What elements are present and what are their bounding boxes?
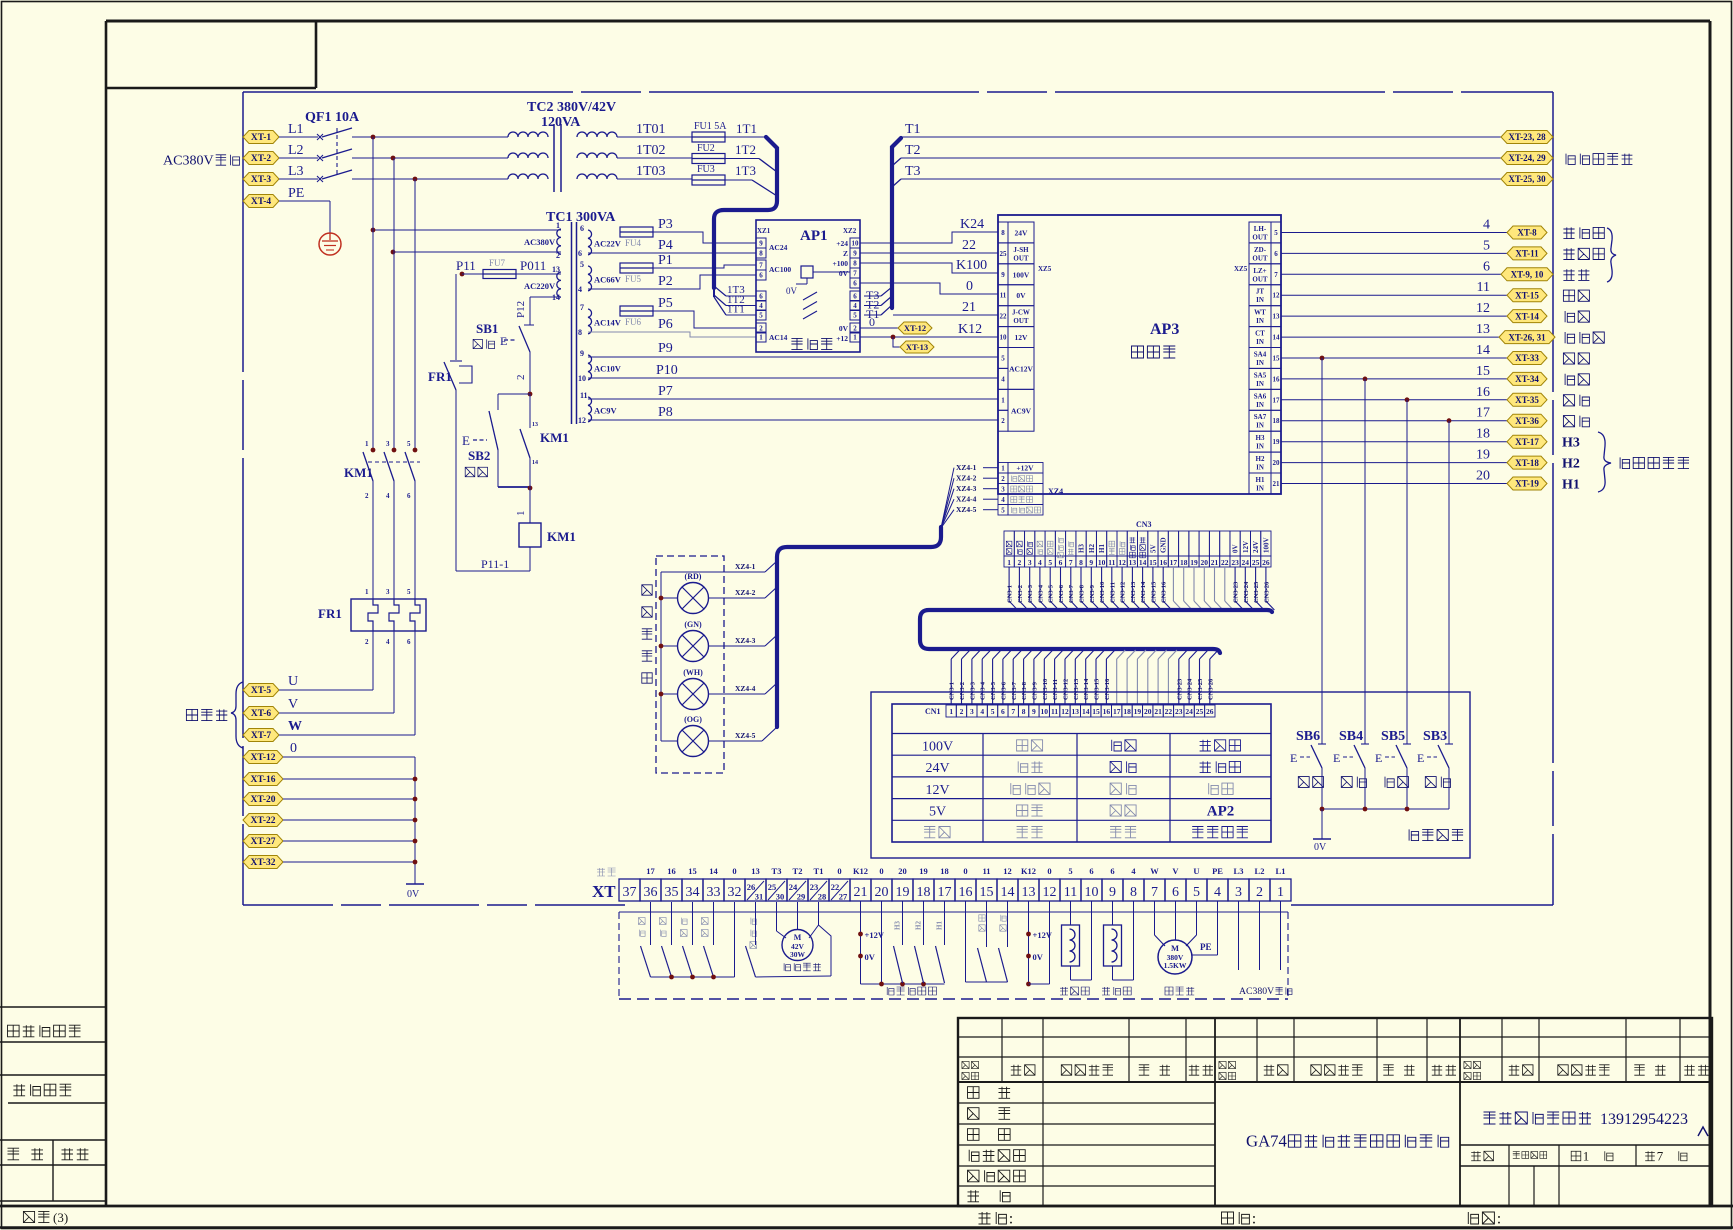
svg-text:13: 13	[1273, 313, 1281, 321]
svg-text:1T1: 1T1	[727, 304, 745, 316]
svg-text:H2: H2	[915, 921, 923, 930]
svg-text:7: 7	[1657, 1148, 1664, 1163]
svg-text:XZ4-2: XZ4-2	[956, 474, 977, 483]
svg-text:L1: L1	[288, 122, 304, 137]
svg-text:19: 19	[919, 866, 928, 876]
svg-text:XZ4-1: XZ4-1	[735, 562, 756, 571]
svg-text:P011: P011	[520, 258, 546, 273]
svg-text:5: 5	[580, 260, 584, 269]
svg-text:P11-1: P11-1	[481, 557, 509, 571]
svg-text:100V: 100V	[1262, 537, 1270, 553]
svg-text:P11: P11	[456, 258, 476, 273]
svg-text:T3: T3	[905, 164, 921, 179]
svg-text:5: 5	[407, 588, 411, 596]
svg-text:FU3: FU3	[697, 164, 715, 175]
svg-text:29: 29	[797, 892, 806, 902]
svg-text:XZ2: XZ2	[843, 227, 857, 235]
svg-text:6: 6	[1059, 558, 1063, 567]
svg-text:XT-1: XT-1	[251, 133, 271, 143]
svg-text:25: 25	[1000, 250, 1008, 258]
svg-text:24: 24	[789, 882, 798, 892]
svg-text:T1: T1	[905, 122, 921, 137]
svg-text:6: 6	[1110, 866, 1114, 876]
svg-text:20: 20	[898, 866, 907, 876]
svg-text:XT-17: XT-17	[1515, 437, 1539, 447]
svg-text:10: 10	[1085, 885, 1099, 900]
svg-text:16: 16	[959, 885, 973, 900]
svg-text:0: 0	[869, 315, 875, 329]
svg-text:37: 37	[623, 885, 637, 900]
svg-text:26: 26	[1206, 707, 1214, 716]
svg-text:XT-34: XT-34	[1515, 374, 1539, 384]
svg-text:CN3-14: CN3-14	[1083, 678, 1090, 700]
svg-text:30W: 30W	[790, 950, 806, 959]
svg-text:21: 21	[1154, 707, 1162, 716]
svg-text:AC380V: AC380V	[163, 153, 214, 169]
svg-text:CN3-12: CN3-12	[1120, 582, 1127, 603]
svg-text:CN3-8: CN3-8	[1021, 681, 1028, 700]
svg-text:23: 23	[810, 882, 819, 892]
svg-text:CN3-10: CN3-10	[1042, 679, 1049, 700]
svg-text:8: 8	[853, 260, 857, 268]
svg-text:20: 20	[1201, 558, 1209, 567]
svg-text:16: 16	[1476, 385, 1490, 400]
svg-text:1.5KW: 1.5KW	[1164, 961, 1187, 970]
svg-text:AC14: AC14	[769, 333, 788, 342]
svg-text:10: 10	[852, 240, 860, 248]
svg-text:12: 12	[1273, 292, 1281, 300]
svg-text:18: 18	[1476, 427, 1490, 442]
svg-text:P10: P10	[656, 363, 678, 378]
svg-text:1: 1	[1007, 558, 1011, 567]
svg-text:L3: L3	[288, 164, 304, 179]
svg-text:XZ4-2: XZ4-2	[735, 588, 756, 597]
svg-text:CN3-7: CN3-7	[1011, 681, 1018, 700]
svg-text:XT-15: XT-15	[1515, 290, 1539, 300]
svg-text:P3: P3	[658, 217, 673, 232]
svg-text:26: 26	[1262, 558, 1270, 567]
svg-text:XT-12: XT-12	[251, 753, 276, 763]
svg-text:27: 27	[839, 892, 848, 902]
svg-text:10: 10	[578, 374, 586, 383]
svg-text:19: 19	[1273, 438, 1281, 446]
svg-text:E: E	[1417, 751, 1424, 765]
svg-text:H1: H1	[1098, 544, 1106, 553]
svg-text:1T03: 1T03	[636, 164, 666, 179]
svg-text:5V: 5V	[1149, 544, 1157, 553]
svg-text:4: 4	[386, 638, 390, 646]
svg-text:H2: H2	[1562, 457, 1580, 472]
svg-text:CN1: CN1	[925, 707, 941, 716]
svg-text:8: 8	[1001, 229, 1005, 237]
svg-text:1: 1	[1583, 1148, 1589, 1163]
svg-text:AC100: AC100	[769, 265, 791, 274]
svg-text:XZ1: XZ1	[757, 227, 771, 235]
svg-text:XT-4: XT-4	[251, 197, 271, 207]
svg-text:L3: L3	[1234, 866, 1244, 876]
svg-text:17: 17	[646, 866, 655, 876]
svg-text:FU4: FU4	[625, 238, 642, 248]
svg-text:L2: L2	[288, 143, 304, 158]
svg-text:P2: P2	[658, 274, 673, 289]
svg-text:0V: 0V	[1016, 291, 1026, 300]
svg-text:1T1: 1T1	[736, 121, 757, 136]
svg-text:SB3: SB3	[1423, 729, 1447, 744]
svg-text:4: 4	[1038, 558, 1042, 567]
svg-text:FR1: FR1	[428, 369, 452, 384]
svg-text:15: 15	[1092, 707, 1100, 716]
svg-text:E: E	[500, 334, 507, 348]
svg-text:0V: 0V	[786, 286, 798, 296]
svg-text:3: 3	[386, 588, 390, 596]
svg-text:H3: H3	[1078, 544, 1086, 553]
svg-text:10: 10	[1041, 707, 1049, 716]
svg-text:XT: XT	[592, 882, 616, 901]
svg-text:0: 0	[732, 866, 736, 876]
svg-text:13: 13	[1072, 707, 1080, 716]
svg-text:QF1 10A: QF1 10A	[305, 110, 360, 125]
svg-text:1: 1	[365, 440, 369, 448]
svg-text:IN: IN	[1256, 380, 1264, 388]
svg-text:AC10V: AC10V	[594, 364, 622, 374]
svg-text:W: W	[1150, 866, 1159, 876]
svg-text:12V: 12V	[1242, 541, 1250, 553]
svg-text:26: 26	[747, 882, 756, 892]
svg-text:4: 4	[853, 302, 857, 310]
svg-text:KM1: KM1	[547, 529, 576, 544]
svg-text:CN3-25: CN3-25	[1197, 678, 1204, 700]
svg-text:24V: 24V	[925, 761, 949, 776]
svg-text:16: 16	[1103, 707, 1111, 716]
svg-text:17: 17	[1170, 558, 1178, 567]
svg-text:FU6: FU6	[625, 317, 642, 327]
svg-text:XT-5: XT-5	[251, 686, 271, 696]
svg-text:6: 6	[1274, 250, 1278, 258]
svg-text:U: U	[288, 674, 298, 689]
svg-text:1: 1	[1277, 885, 1284, 900]
svg-text:8: 8	[1022, 707, 1026, 716]
svg-text::: :	[1009, 1209, 1014, 1227]
svg-text:2: 2	[960, 707, 964, 716]
svg-text:11: 11	[982, 866, 990, 876]
svg-text:15: 15	[1273, 355, 1281, 363]
svg-text:6: 6	[407, 638, 411, 646]
svg-text:XZ4-3: XZ4-3	[735, 636, 756, 645]
svg-text:18: 18	[940, 866, 949, 876]
svg-text:25: 25	[768, 882, 777, 892]
svg-text:19: 19	[1134, 707, 1142, 716]
svg-text:IN: IN	[1256, 485, 1264, 493]
svg-text:4: 4	[1483, 218, 1490, 233]
svg-text:100V: 100V	[922, 739, 953, 754]
svg-text:6: 6	[1483, 259, 1490, 274]
svg-text:5: 5	[407, 440, 411, 448]
svg-text::: :	[1497, 1209, 1502, 1227]
svg-text:5: 5	[1068, 866, 1072, 876]
svg-text:P5: P5	[658, 296, 673, 311]
svg-text:1: 1	[556, 221, 560, 230]
svg-text:11: 11	[1108, 558, 1115, 567]
svg-text:22: 22	[1000, 313, 1008, 321]
svg-text:AC12V: AC12V	[1009, 364, 1033, 373]
svg-text:20: 20	[1476, 469, 1490, 484]
svg-text:CN3-1: CN3-1	[949, 682, 956, 700]
svg-text:LH-: LH-	[1254, 225, 1267, 233]
svg-text:1: 1	[759, 334, 763, 342]
svg-text:FU2: FU2	[697, 143, 715, 154]
svg-text:XT-19: XT-19	[1515, 479, 1539, 489]
svg-text:M: M	[1171, 943, 1179, 953]
svg-text:AC14V: AC14V	[594, 318, 622, 328]
svg-text:20: 20	[1273, 459, 1281, 467]
svg-text:17: 17	[1113, 707, 1121, 716]
svg-text:XZ4-3: XZ4-3	[956, 484, 977, 493]
svg-text:3: 3	[1001, 486, 1005, 494]
svg-text:18: 18	[1123, 707, 1131, 716]
svg-text:P12: P12	[515, 301, 527, 318]
svg-text:CN3-13: CN3-13	[1073, 678, 1080, 700]
svg-text:T1: T1	[814, 866, 824, 876]
svg-text:WT: WT	[1254, 309, 1266, 317]
svg-text:AC24: AC24	[769, 243, 788, 252]
svg-text:L1: L1	[1276, 866, 1286, 876]
svg-text:XT-12: XT-12	[904, 323, 926, 333]
svg-text:K12: K12	[853, 866, 868, 876]
svg-text:9: 9	[1032, 707, 1036, 716]
svg-text:CN3-3: CN3-3	[1027, 584, 1034, 603]
svg-text:0V: 0V	[839, 324, 849, 333]
svg-text:13: 13	[1022, 885, 1036, 900]
svg-text:28: 28	[818, 892, 827, 902]
svg-text:K12: K12	[1021, 866, 1036, 876]
svg-text:OUT: OUT	[1013, 254, 1029, 262]
svg-text:23: 23	[1231, 558, 1239, 567]
svg-text:CN3-26: CN3-26	[1263, 581, 1270, 603]
svg-text:7: 7	[1011, 707, 1015, 716]
svg-text:13: 13	[552, 265, 560, 274]
svg-text:CN3-14: CN3-14	[1140, 581, 1147, 603]
svg-text:M: M	[794, 933, 802, 942]
svg-text:FU5: FU5	[625, 274, 642, 284]
svg-text:CN3-26: CN3-26	[1207, 678, 1214, 700]
svg-text:CN3-1: CN3-1	[1007, 585, 1014, 603]
svg-text:14: 14	[1139, 558, 1147, 567]
svg-text:0: 0	[966, 279, 973, 294]
svg-text:0: 0	[963, 866, 967, 876]
svg-text:11: 11	[1000, 292, 1007, 300]
svg-text:ZD-: ZD-	[1254, 246, 1267, 254]
svg-text:8: 8	[1130, 885, 1137, 900]
svg-text:4: 4	[386, 492, 390, 500]
svg-text:CT: CT	[1255, 330, 1265, 338]
svg-text:4: 4	[980, 707, 984, 716]
svg-text:2: 2	[1018, 558, 1022, 567]
svg-text:1T3: 1T3	[735, 163, 756, 178]
svg-text:15: 15	[688, 866, 697, 876]
svg-text:5: 5	[1001, 355, 1005, 363]
svg-text:32: 32	[728, 885, 742, 900]
svg-text:KM1: KM1	[344, 465, 373, 480]
svg-text:4: 4	[1001, 496, 1005, 504]
svg-text:15: 15	[1149, 558, 1157, 567]
svg-text:LZ+: LZ+	[1253, 267, 1266, 275]
svg-text:SB4: SB4	[1339, 729, 1363, 744]
svg-text:6: 6	[759, 293, 763, 301]
svg-text:AC66V: AC66V	[594, 275, 622, 285]
svg-text:4: 4	[1001, 375, 1005, 383]
svg-text:12: 12	[1061, 707, 1069, 716]
svg-text:0V: 0V	[865, 952, 876, 962]
svg-text:P6: P6	[658, 317, 673, 332]
svg-text:19: 19	[1476, 448, 1490, 463]
svg-text:AC9V: AC9V	[1011, 406, 1032, 415]
svg-text:XT-25, 30: XT-25, 30	[1508, 174, 1546, 184]
svg-text:XT-24, 29: XT-24, 29	[1508, 153, 1546, 163]
svg-text:T2: T2	[793, 866, 803, 876]
svg-text:OUT: OUT	[1252, 254, 1268, 262]
svg-text:XT-8: XT-8	[1517, 228, 1537, 238]
svg-text:2: 2	[1001, 475, 1005, 483]
svg-text:20: 20	[875, 885, 889, 900]
svg-text:2: 2	[556, 251, 560, 260]
svg-text:AC22V: AC22V	[594, 239, 622, 249]
svg-text:XT-22: XT-22	[251, 816, 276, 826]
svg-text:20: 20	[1144, 707, 1152, 716]
svg-text:4: 4	[578, 285, 582, 294]
svg-text:H2: H2	[1088, 544, 1096, 553]
svg-text:21: 21	[854, 885, 868, 900]
svg-text:6: 6	[578, 249, 582, 258]
svg-text:V: V	[288, 697, 298, 712]
svg-text:XT-33: XT-33	[1515, 353, 1539, 363]
svg-text:10: 10	[1000, 334, 1008, 342]
svg-text:14: 14	[1476, 343, 1490, 358]
svg-text:18: 18	[1180, 558, 1188, 567]
svg-text:XT-18: XT-18	[1515, 458, 1539, 468]
svg-text:AP1: AP1	[800, 228, 828, 244]
svg-text:W: W	[288, 719, 302, 734]
svg-text:CN3-5: CN3-5	[990, 681, 997, 700]
svg-text:10: 10	[1098, 558, 1106, 567]
svg-text:XZ5: XZ5	[1038, 265, 1052, 273]
svg-text:CN3-23: CN3-23	[1233, 581, 1240, 603]
svg-text:K12: K12	[958, 322, 982, 337]
svg-text:CN3-13: CN3-13	[1130, 581, 1137, 603]
svg-text:XZ4-5: XZ4-5	[956, 505, 977, 514]
svg-text:17: 17	[1273, 396, 1281, 404]
svg-text:13: 13	[751, 866, 760, 876]
svg-text:IN: IN	[1256, 296, 1264, 304]
svg-text:OUT: OUT	[1013, 317, 1029, 325]
svg-text:P4: P4	[658, 238, 673, 253]
svg-text:33: 33	[707, 885, 721, 900]
svg-text:6: 6	[1001, 707, 1005, 716]
svg-text:12: 12	[1118, 558, 1126, 567]
svg-text:11: 11	[1477, 280, 1490, 295]
svg-text:22: 22	[831, 882, 840, 892]
svg-text:CN3-10: CN3-10	[1099, 582, 1106, 603]
svg-text:XZ4: XZ4	[1048, 487, 1063, 496]
svg-text:2: 2	[853, 325, 857, 333]
svg-text:15: 15	[980, 885, 994, 900]
svg-text:23: 23	[1175, 707, 1183, 716]
svg-text:9: 9	[1001, 271, 1005, 279]
svg-text:P1: P1	[658, 253, 673, 268]
svg-text:AP2: AP2	[1207, 804, 1235, 820]
svg-text:21: 21	[1273, 480, 1281, 488]
svg-text:CN3-24: CN3-24	[1187, 678, 1194, 700]
svg-text:6: 6	[1172, 885, 1179, 900]
svg-text:(WH): (WH)	[683, 668, 703, 677]
svg-text:0V: 0V	[839, 269, 849, 278]
svg-text:21: 21	[1211, 558, 1219, 567]
svg-text:1T2: 1T2	[735, 142, 756, 157]
svg-text:12V: 12V	[1015, 333, 1029, 342]
svg-text:K100: K100	[956, 258, 987, 273]
svg-text:CN3-9: CN3-9	[1031, 681, 1038, 700]
svg-text:CN3-3: CN3-3	[969, 681, 976, 700]
svg-text:8: 8	[1079, 558, 1083, 567]
svg-text:17: 17	[1476, 406, 1490, 421]
svg-text:Z: Z	[843, 249, 848, 258]
svg-text:XZ5: XZ5	[1234, 265, 1248, 273]
svg-text:12: 12	[1043, 885, 1057, 900]
svg-text:TC2 380V/42V: TC2 380V/42V	[527, 100, 616, 115]
svg-text:CN3-4: CN3-4	[1037, 584, 1044, 603]
svg-text:OUT: OUT	[1252, 234, 1268, 242]
svg-text:16: 16	[1159, 558, 1167, 567]
svg-text:0V: 0V	[1232, 544, 1240, 553]
svg-text:25: 25	[1196, 707, 1204, 716]
svg-text:17: 17	[938, 885, 952, 900]
svg-text:PE: PE	[1212, 866, 1223, 876]
svg-text:22: 22	[1221, 558, 1229, 567]
svg-text:CN3-15: CN3-15	[1150, 581, 1157, 603]
svg-text:1: 1	[949, 707, 953, 716]
svg-text:11: 11	[580, 391, 588, 400]
svg-text:16: 16	[667, 866, 676, 876]
svg-text:7: 7	[853, 270, 857, 278]
svg-text:XT-9, 10: XT-9, 10	[1511, 270, 1544, 280]
svg-text:CN3-16: CN3-16	[1161, 581, 1168, 603]
svg-text:24: 24	[1185, 707, 1193, 716]
svg-text:15: 15	[1476, 364, 1490, 379]
svg-text:5: 5	[1483, 238, 1490, 253]
svg-text:CN3-6: CN3-6	[1058, 584, 1065, 603]
svg-text:1: 1	[853, 334, 857, 342]
svg-text:(GN): (GN)	[684, 620, 702, 629]
svg-text:CN3-5: CN3-5	[1048, 584, 1055, 603]
svg-text:14: 14	[709, 866, 718, 876]
svg-text:CN3-4: CN3-4	[980, 681, 987, 700]
svg-text:12V: 12V	[925, 783, 949, 798]
svg-text:19: 19	[1190, 558, 1198, 567]
svg-text:CN3-23: CN3-23	[1176, 678, 1183, 700]
svg-text:4: 4	[1214, 885, 1221, 900]
svg-text:24: 24	[1242, 558, 1250, 567]
svg-text:SA4: SA4	[1254, 351, 1267, 359]
svg-text:2: 2	[1001, 417, 1005, 425]
svg-text:CN3-25: CN3-25	[1253, 581, 1260, 603]
svg-text:CN3-6: CN3-6	[1000, 681, 1007, 700]
svg-text:2: 2	[365, 638, 369, 646]
svg-text:7: 7	[580, 303, 584, 312]
svg-text:V: V	[1172, 866, 1179, 876]
svg-text:H3: H3	[1256, 434, 1265, 442]
svg-text:E: E	[1375, 751, 1382, 765]
svg-text:K24: K24	[960, 217, 984, 232]
svg-text:1: 1	[365, 588, 369, 596]
